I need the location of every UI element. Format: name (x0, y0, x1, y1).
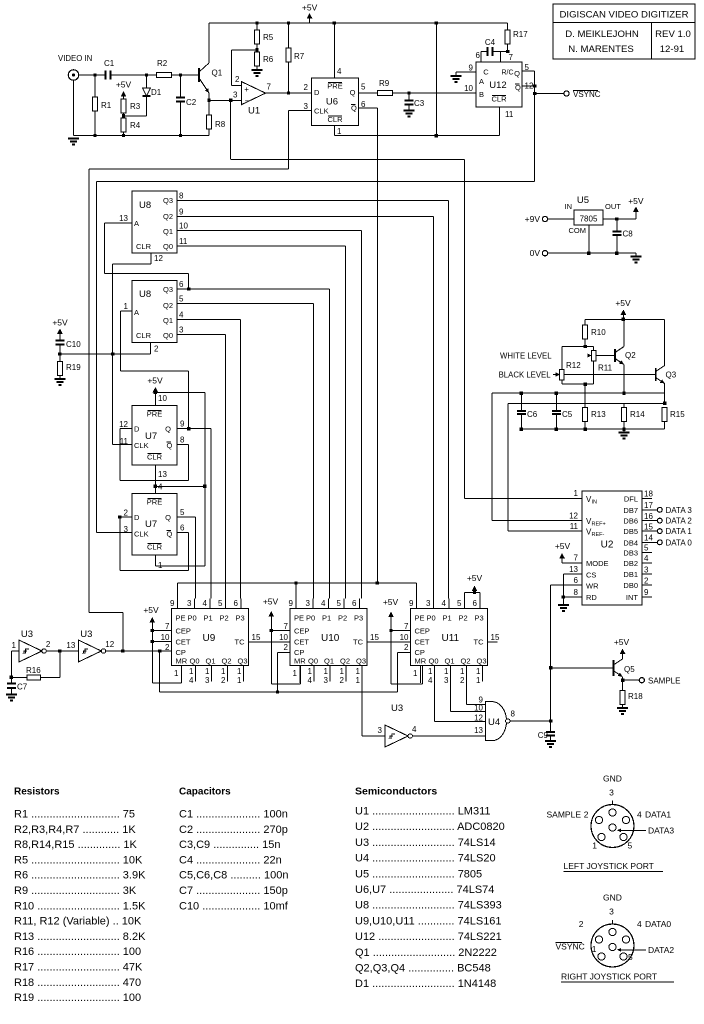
svg-text:REV 1.0: REV 1.0 (655, 29, 691, 40)
svg-text:R5 ...........................: R5 ............................. 10K (14, 854, 143, 866)
svg-text:Q2: Q2 (625, 351, 636, 360)
svg-text:3: 3 (205, 676, 210, 685)
svg-text:MR: MR (176, 657, 188, 666)
svg-text:4: 4 (442, 599, 447, 608)
svg-text:DATA3: DATA3 (648, 825, 674, 835)
svg-text:R14: R14 (630, 410, 645, 419)
svg-text:2: 2 (284, 643, 289, 652)
svg-text:P0: P0 (427, 614, 436, 623)
svg-text:U7: U7 (145, 431, 157, 442)
svg-text:13: 13 (474, 726, 483, 735)
svg-text:2: 2 (304, 83, 309, 92)
svg-text:Q2,Q3,Q4 ............... BC548: Q2,Q3,Q4 ............... BC548 (355, 963, 491, 975)
svg-text:8: 8 (180, 436, 185, 445)
svg-text:+5V: +5V (614, 637, 630, 647)
svg-text:P2: P2 (338, 614, 347, 623)
svg-text:U12 .........................: U12 ......................... 74LS221 (355, 931, 502, 943)
svg-text:1: 1 (308, 667, 313, 676)
svg-text:A: A (134, 308, 139, 317)
svg-text:C3,C9 ............... 15n: C3,C9 ............... 15n (179, 839, 281, 851)
svg-text:Q0: Q0 (308, 657, 318, 666)
svg-text:2: 2 (579, 919, 584, 929)
svg-text:C4: C4 (485, 38, 496, 47)
svg-text:4: 4 (337, 67, 342, 76)
svg-text:C1: C1 (104, 59, 115, 68)
svg-text:P1: P1 (204, 614, 213, 623)
svg-text:R8: R8 (215, 120, 226, 129)
svg-text:+5V: +5V (147, 376, 163, 386)
svg-text:Q1: Q1 (206, 657, 216, 666)
svg-text:6: 6 (574, 576, 579, 585)
svg-text:DATA2: DATA2 (648, 945, 674, 955)
svg-text:+5V: +5V (628, 196, 644, 206)
svg-text:R16 ..........................: R16 ........................... 100 (14, 946, 141, 958)
svg-text:COM: COM (569, 226, 587, 235)
svg-text:TC: TC (474, 638, 485, 647)
svg-text:R4: R4 (130, 121, 141, 130)
svg-text:+5V: +5V (116, 80, 132, 90)
svg-text:1: 1 (340, 667, 345, 676)
svg-text:U8: U8 (139, 289, 151, 300)
svg-text:DATA 1: DATA 1 (666, 527, 693, 536)
svg-text:IN: IN (592, 500, 598, 506)
svg-text:11: 11 (505, 110, 514, 119)
svg-text:3: 3 (426, 599, 431, 608)
svg-text:CET: CET (176, 638, 191, 647)
svg-text:U3: U3 (21, 629, 33, 640)
svg-text:2: 2 (644, 576, 649, 585)
svg-text:6: 6 (476, 51, 481, 60)
svg-text:DB1: DB1 (623, 570, 638, 579)
svg-text:Q: Q (514, 69, 520, 78)
svg-text:3: 3 (324, 676, 329, 685)
svg-text:11: 11 (570, 522, 579, 531)
svg-text:C6: C6 (527, 410, 538, 419)
svg-text:12-91: 12-91 (660, 44, 685, 55)
svg-text:C5,C6,C8 .......... 100n: C5,C6,C8 .......... 100n (179, 870, 288, 882)
svg-text:R17 ..........................: R17 ........................... 47K (14, 962, 143, 974)
svg-text:6: 6 (234, 599, 239, 608)
svg-text:9: 9 (179, 208, 184, 217)
svg-text:1: 1 (356, 667, 361, 676)
svg-text:OUT: OUT (605, 202, 621, 211)
svg-text:13: 13 (158, 470, 167, 479)
svg-text:1: 1 (356, 676, 361, 685)
svg-text:REF+: REF+ (592, 522, 606, 528)
svg-text:5: 5 (218, 599, 223, 608)
svg-text:C7: C7 (17, 683, 28, 692)
svg-text:C10 ................... 10mf: C10 ................... 10mf (179, 900, 289, 912)
svg-text:DB0: DB0 (623, 581, 638, 590)
svg-text:1: 1 (174, 669, 179, 678)
svg-text:1: 1 (460, 667, 465, 676)
svg-text:10: 10 (400, 633, 409, 642)
svg-text:Q1 ...........................: Q1 ........................... 2N2222 (355, 947, 497, 959)
svg-text:4: 4 (308, 676, 313, 685)
svg-text:1: 1 (189, 667, 194, 676)
svg-text:9: 9 (170, 599, 175, 608)
svg-text:P0: P0 (306, 614, 315, 623)
svg-text:Q: Q (165, 425, 171, 434)
svg-text:+5V: +5V (263, 597, 279, 607)
svg-text:13: 13 (119, 214, 128, 223)
svg-text:2: 2 (154, 345, 159, 354)
svg-text:Q3: Q3 (666, 371, 677, 380)
svg-text:4: 4 (179, 311, 184, 320)
svg-text:PE: PE (415, 614, 425, 623)
svg-text:C9: C9 (538, 731, 549, 740)
svg-text:6: 6 (179, 280, 184, 289)
svg-text:Q2: Q2 (340, 657, 350, 666)
svg-text:14: 14 (644, 534, 653, 543)
svg-text:Q3: Q3 (163, 196, 173, 205)
svg-text:1: 1 (592, 841, 597, 851)
svg-text:DB4: DB4 (623, 538, 638, 547)
svg-text:1: 1 (205, 667, 210, 676)
svg-text:10: 10 (279, 633, 288, 642)
svg-text:10: 10 (464, 84, 473, 93)
svg-text:+5V: +5V (52, 318, 68, 328)
svg-text:15: 15 (644, 522, 653, 531)
svg-text:U6: U6 (326, 97, 338, 108)
svg-text:CLK: CLK (134, 441, 149, 450)
svg-text:2: 2 (584, 810, 589, 820)
svg-text:SAMPLE: SAMPLE (547, 810, 582, 820)
svg-text:Semiconductors: Semiconductors (355, 786, 437, 798)
svg-text:12: 12 (569, 512, 578, 521)
svg-text:1: 1 (413, 669, 418, 678)
svg-text:U7: U7 (145, 519, 157, 530)
svg-text:2: 2 (46, 640, 51, 649)
svg-text:4: 4 (428, 676, 433, 685)
svg-text:Q2: Q2 (461, 657, 471, 666)
svg-text:5: 5 (628, 952, 633, 962)
svg-text:U2 ...........................: U2 ........................... ADC0820 (355, 821, 505, 833)
svg-text:Q1: Q1 (163, 227, 173, 236)
svg-text:R8,R14,R15 .............. 1K: R8,R14,R15 .............. 1K (14, 839, 138, 851)
svg-text:5: 5 (179, 295, 184, 304)
svg-text:CLR: CLR (136, 242, 152, 251)
svg-text:R16: R16 (26, 666, 41, 675)
svg-text:3: 3 (609, 907, 614, 917)
svg-text:3: 3 (233, 91, 238, 100)
svg-text:R13 ..........................: R13 ........................... 8.2K (14, 931, 146, 943)
svg-text:P3: P3 (236, 614, 245, 623)
svg-text:R9 ...........................: R9 ............................. 3K (14, 885, 137, 897)
svg-text:Q0: Q0 (190, 657, 200, 666)
svg-text:DATA0: DATA0 (645, 919, 671, 929)
svg-text:Q0: Q0 (163, 331, 173, 340)
svg-text:R11, R12 (Variable) .. 10K: R11, R12 (Variable) .. 10K (14, 916, 142, 928)
svg-text:P0: P0 (188, 614, 197, 623)
svg-text:C2 ..................... 270p: C2 ..................... 270p (179, 824, 288, 836)
svg-text:DFL: DFL (624, 494, 638, 503)
svg-text:5: 5 (180, 508, 185, 517)
svg-text:R6 ...........................: R6 ............................. 3.9K (14, 870, 146, 882)
svg-text:A: A (479, 77, 484, 86)
svg-text:1: 1 (337, 127, 342, 136)
svg-text:6: 6 (352, 599, 357, 608)
svg-text:R18 ..........................: R18 ........................... 470 (14, 977, 141, 989)
svg-text:DB3: DB3 (623, 548, 638, 557)
svg-text:P3: P3 (475, 614, 484, 623)
svg-text:3: 3 (187, 599, 192, 608)
svg-text:D1: D1 (151, 88, 162, 97)
svg-text:+5V: +5V (143, 605, 159, 615)
svg-text:+5V: +5V (555, 541, 571, 551)
svg-text:MR: MR (294, 657, 306, 666)
svg-text:1: 1 (476, 667, 481, 676)
svg-text:3: 3 (378, 726, 383, 735)
svg-text:R10: R10 (591, 328, 606, 337)
svg-text:2: 2 (124, 509, 129, 518)
svg-text:CET: CET (415, 638, 430, 647)
svg-text:U12: U12 (489, 80, 506, 91)
svg-text:U5: U5 (577, 195, 589, 206)
svg-text:9: 9 (180, 420, 185, 429)
svg-text:U6,U7 ..................... 74: U6,U7 ..................... 74LS74 (355, 884, 494, 896)
svg-text:7: 7 (267, 83, 272, 92)
svg-text:R11: R11 (598, 364, 613, 373)
svg-text:DATA 3: DATA 3 (666, 506, 693, 515)
svg-text:DATA 2: DATA 2 (666, 517, 693, 526)
svg-text:0V: 0V (530, 248, 541, 258)
svg-text:1: 1 (158, 561, 163, 570)
svg-text:R9: R9 (379, 79, 390, 88)
svg-text:3: 3 (179, 326, 184, 335)
svg-text:C10: C10 (66, 340, 81, 349)
svg-text:DATA1: DATA1 (645, 810, 671, 820)
svg-text:10: 10 (161, 633, 170, 642)
svg-text:CLK: CLK (314, 107, 329, 116)
svg-text:LEFT JOYSTICK PORT: LEFT JOYSTICK PORT (564, 861, 654, 871)
svg-text:U11: U11 (442, 633, 460, 644)
svg-text:Q1: Q1 (445, 657, 455, 666)
svg-text:6: 6 (473, 599, 478, 608)
svg-text:U10: U10 (321, 633, 340, 644)
svg-text:10: 10 (179, 222, 188, 231)
svg-text:5: 5 (457, 599, 462, 608)
svg-text:Q5: Q5 (624, 665, 635, 674)
svg-text:+5V: +5V (467, 573, 483, 583)
svg-text:U1: U1 (248, 106, 260, 117)
svg-text:−: − (245, 97, 250, 106)
svg-text:Q3: Q3 (163, 285, 173, 294)
svg-text:3: 3 (444, 676, 449, 685)
svg-text:8: 8 (511, 710, 516, 719)
svg-text:1: 1 (428, 667, 433, 676)
svg-text:Q2: Q2 (163, 301, 173, 310)
svg-text:DB7: DB7 (623, 506, 638, 515)
svg-text:U2: U2 (601, 540, 614, 551)
svg-text:GND: GND (603, 774, 622, 784)
svg-text:10: 10 (158, 394, 167, 403)
svg-text:9: 9 (469, 64, 474, 73)
svg-text:Resistors: Resistors (14, 787, 60, 798)
svg-text:2: 2 (221, 676, 226, 685)
svg-text:CS: CS (586, 571, 596, 580)
svg-text:C: C (483, 68, 489, 77)
svg-text:7: 7 (404, 622, 409, 631)
svg-text:INT: INT (626, 593, 639, 602)
svg-text:C4 ..................... 22n: C4 ..................... 22n (179, 854, 282, 866)
svg-text:PE: PE (294, 614, 304, 623)
svg-text:4: 4 (412, 725, 417, 734)
svg-text:R6: R6 (263, 55, 274, 64)
svg-text:18: 18 (644, 490, 653, 499)
svg-text:6: 6 (180, 524, 185, 533)
svg-text:GND: GND (603, 893, 622, 903)
svg-text:Q2: Q2 (222, 657, 232, 666)
svg-text:1: 1 (324, 667, 329, 676)
svg-text:Q1: Q1 (324, 657, 334, 666)
svg-text:CET: CET (294, 638, 309, 647)
svg-text:13: 13 (66, 641, 75, 650)
svg-text:Q3: Q3 (356, 657, 366, 666)
svg-text:7: 7 (165, 622, 170, 631)
svg-text:3: 3 (306, 599, 311, 608)
svg-text:U8 ...........................: U8 ........................... 74LS393 (355, 900, 502, 912)
svg-text:8: 8 (574, 588, 579, 597)
svg-text:12: 12 (119, 420, 128, 429)
svg-text:13: 13 (569, 565, 578, 574)
svg-text:5: 5 (337, 599, 342, 608)
svg-text:1: 1 (11, 641, 16, 650)
svg-text:U9: U9 (203, 633, 216, 644)
svg-text:8: 8 (179, 192, 184, 201)
svg-text:WR: WR (586, 582, 599, 591)
svg-text:1: 1 (237, 667, 242, 676)
svg-text:R19 ..........................: R19 ........................... 100 (14, 992, 141, 1004)
svg-text:R19: R19 (66, 363, 81, 372)
svg-text:R18: R18 (628, 692, 643, 701)
svg-text:R1: R1 (101, 101, 112, 110)
svg-text:CLR: CLR (136, 331, 152, 340)
svg-text:9: 9 (644, 588, 649, 597)
svg-text:Q1: Q1 (212, 69, 223, 78)
svg-text:C2: C2 (186, 98, 197, 107)
svg-text:4: 4 (637, 810, 642, 820)
svg-text:U4: U4 (488, 717, 500, 728)
svg-text:CEP: CEP (294, 627, 309, 636)
svg-text:U9,U10,U11 ............ 74LS16: U9,U10,U11 ............ 74LS161 (355, 915, 502, 927)
svg-text:Capacitors: Capacitors (179, 787, 231, 798)
svg-text:4: 4 (203, 599, 208, 608)
svg-text:2: 2 (235, 75, 240, 84)
svg-text:R10 ..........................: R10 ........................... 1.5K (14, 900, 146, 912)
svg-text:1: 1 (124, 302, 129, 311)
svg-text:+9V: +9V (525, 214, 541, 224)
svg-text:1: 1 (592, 944, 597, 954)
svg-text:R5: R5 (263, 33, 274, 42)
svg-text:R1 ...........................: R1 ............................. 75 (14, 809, 135, 821)
svg-text:+5V: +5V (383, 597, 399, 607)
svg-text:C8: C8 (623, 230, 634, 239)
svg-text:2: 2 (460, 676, 465, 685)
svg-text:17: 17 (644, 501, 653, 510)
svg-text:DATA 0: DATA 0 (666, 538, 693, 547)
svg-text:15: 15 (252, 633, 261, 642)
svg-text:Q2: Q2 (163, 212, 173, 221)
svg-text:1: 1 (476, 676, 481, 685)
svg-text:12: 12 (474, 714, 483, 723)
svg-text:A: A (134, 219, 139, 228)
svg-text:15: 15 (370, 633, 379, 642)
svg-text:4: 4 (158, 483, 163, 492)
svg-text:U4 ...........................: U4 ........................... 74LS20 (355, 853, 496, 865)
svg-text:3: 3 (609, 788, 614, 798)
svg-text:SAMPLE: SAMPLE (648, 677, 680, 686)
svg-text:4: 4 (637, 919, 642, 929)
svg-text:CLK: CLK (134, 530, 149, 539)
svg-text:U3: U3 (80, 629, 92, 640)
svg-text:P2: P2 (220, 614, 229, 623)
svg-text:1: 1 (221, 667, 226, 676)
svg-text:5: 5 (644, 544, 649, 553)
svg-text:2: 2 (340, 676, 345, 685)
svg-text:12: 12 (105, 640, 114, 649)
svg-text:1: 1 (293, 669, 298, 678)
svg-text:R7: R7 (294, 52, 305, 61)
svg-text:D: D (314, 88, 320, 97)
svg-text:R12: R12 (566, 361, 581, 370)
svg-text:CEP: CEP (176, 627, 191, 636)
svg-text:TC: TC (353, 638, 364, 647)
svg-text:9: 9 (409, 599, 414, 608)
svg-text:DIGISCAN VIDEO DIGITIZER: DIGISCAN VIDEO DIGITIZER (560, 10, 689, 21)
svg-text:1: 1 (237, 676, 242, 685)
svg-text:Q1: Q1 (163, 316, 173, 325)
svg-text:11: 11 (179, 237, 188, 246)
svg-text:4: 4 (321, 599, 326, 608)
svg-text:IN: IN (565, 202, 573, 211)
svg-text:R15: R15 (670, 410, 685, 419)
svg-text:U3: U3 (391, 703, 403, 714)
svg-text:P3: P3 (354, 614, 363, 623)
svg-text:BLACK LEVEL: BLACK LEVEL (499, 371, 552, 380)
svg-text:Q3: Q3 (238, 657, 248, 666)
svg-text:R13: R13 (591, 410, 606, 419)
svg-text:PE: PE (176, 614, 186, 623)
svg-text:C1 ..................... 100n: C1 ..................... 100n (179, 809, 288, 821)
svg-text:1: 1 (574, 489, 579, 498)
svg-text:VSYNC: VSYNC (573, 90, 601, 99)
svg-text:P2: P2 (459, 614, 468, 623)
svg-text:Q: Q (165, 513, 171, 522)
svg-text:2: 2 (404, 643, 409, 652)
svg-text:B: B (479, 90, 484, 99)
svg-text:15: 15 (491, 633, 500, 642)
svg-text:Q0: Q0 (429, 657, 439, 666)
svg-text:4: 4 (644, 554, 649, 563)
svg-text:RD: RD (586, 593, 597, 602)
svg-text:+5V: +5V (615, 298, 631, 308)
svg-text:1: 1 (444, 667, 449, 676)
svg-text:CEP: CEP (415, 627, 430, 636)
svg-text:9: 9 (289, 599, 294, 608)
svg-text:P1: P1 (322, 614, 331, 623)
svg-text:3: 3 (644, 565, 649, 574)
svg-text:D: D (134, 513, 140, 522)
svg-text:VIDEO IN: VIDEO IN (58, 54, 92, 63)
svg-text:16: 16 (644, 512, 653, 521)
svg-text:RIGHT JOYSTICK PORT: RIGHT JOYSTICK PORT (561, 972, 657, 982)
svg-text:DB5: DB5 (623, 527, 638, 536)
svg-text:P1: P1 (443, 614, 452, 623)
svg-text:C3: C3 (414, 99, 425, 108)
svg-text:R2: R2 (157, 59, 168, 68)
svg-text:R3: R3 (130, 102, 141, 111)
